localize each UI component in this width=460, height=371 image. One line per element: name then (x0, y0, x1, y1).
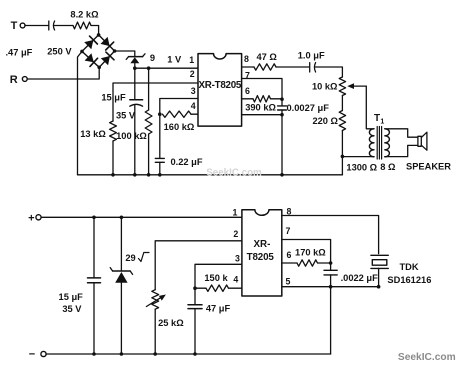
wire 1.0uF to pot 10k (315, 67, 342, 77)
svg-text:1: 1 (233, 207, 238, 217)
IC U2 XR-T8205 (242, 210, 282, 296)
svg-text:1300 Ω: 1300 Ω (346, 163, 377, 173)
svg-text:100 kΩ: 100 kΩ (116, 131, 147, 141)
resistor 390k (245, 96, 282, 113)
svg-text:47 μF: 47 μF (206, 304, 231, 314)
terminal minus (29, 349, 46, 361)
capacitor 15uF 35V upper (101, 92, 142, 175)
wire 47ohm to 1.0uF (276, 66, 309, 68)
svg-text:2: 2 (233, 229, 238, 239)
svg-text:6: 6 (245, 86, 250, 96)
resistor R1 8.2k (70, 10, 99, 29)
crystal TDK SD161216 (371, 255, 431, 286)
svg-text:10 kΩ: 10 kΩ (312, 82, 338, 92)
svg-text:35 V: 35 V (116, 111, 136, 121)
capacitor .0022uF (324, 263, 378, 287)
svg-text:1.0 μF: 1.0 μF (298, 51, 325, 61)
svg-text:8.2 kΩ: 8.2 kΩ (70, 10, 99, 20)
svg-text:R: R (10, 74, 18, 86)
svg-text:13 kΩ: 13 kΩ (80, 129, 106, 139)
svg-text:1 V: 1 V (167, 54, 182, 64)
svg-text:0.0027 μF: 0.0027 μF (287, 103, 330, 113)
svg-text:170 kΩ: 170 kΩ (295, 248, 326, 258)
capacitor 47uF (188, 304, 230, 355)
svg-text:0.22 μF: 0.22 μF (170, 157, 202, 167)
svg-text:7: 7 (285, 226, 290, 236)
wire R1 to bridge top (91, 26, 99, 35)
svg-text:5: 5 (285, 276, 290, 286)
wire bridge left to ground rail (78, 51, 83, 174)
wire U1 pin8 to 47ohm (242, 66, 254, 68)
transformer T1 secondary (385, 129, 390, 157)
wire U2 pin7 (282, 240, 331, 264)
svg-text:150 k: 150 k (204, 273, 228, 283)
wire node to 0.22uF (159, 114, 161, 158)
svg-text:XR-: XR- (253, 239, 270, 250)
resistor 100k (116, 110, 152, 141)
resistor 150k (195, 273, 242, 291)
lower top rail (41, 216, 242, 218)
svg-text:.47 μF: .47 μF (5, 48, 32, 58)
svg-text:29: 29 (125, 253, 135, 263)
potentiometer 25k (146, 290, 184, 328)
wire U1 pin5 (242, 114, 282, 116)
top rail dots (92, 216, 123, 220)
wire 47uF top (194, 288, 196, 305)
node U1 pin5 junction (280, 113, 284, 117)
svg-text:6: 6 (287, 250, 292, 260)
svg-text:9: 9 (150, 53, 155, 63)
capacitor 1.0uF (298, 51, 325, 73)
capacitor 0.0027uF (278, 99, 330, 115)
svg-text:160 kΩ: 160 kΩ (164, 122, 195, 132)
pin5 junction dots (329, 285, 381, 289)
wire zener to U1 pin 1 (135, 67, 198, 69)
svg-text:T: T (374, 113, 380, 124)
resistor 160k (163, 111, 199, 132)
resistor 170k (295, 248, 331, 267)
resistor 220ohm (312, 111, 345, 131)
svg-text:220 Ω: 220 Ω (312, 116, 338, 126)
wire pot wiper down to T1 (366, 86, 374, 129)
zener diode 9 (1V) (126, 53, 155, 68)
wire U1 pin6 stub (242, 98, 253, 100)
svg-text:4: 4 (233, 275, 238, 285)
transformer T1 primary (342, 129, 374, 157)
svg-text:XR-T8205: XR-T8205 (198, 80, 241, 91)
svg-text:15 μF: 15 μF (101, 92, 126, 102)
terminal plus (28, 213, 41, 225)
wire U1 pin7 (242, 79, 282, 100)
svg-text:1: 1 (189, 55, 194, 65)
svg-text:.0022 μF: .0022 μF (341, 273, 379, 283)
wire U2 pin3 riser (195, 264, 242, 288)
diode bridge D1-D4 (80, 33, 116, 69)
resistor 47ohm (254, 52, 277, 70)
wire U2 pin5 (282, 286, 379, 288)
svg-text:SeekIC.com: SeekIC.com (206, 168, 262, 179)
node 160k junction (158, 112, 162, 116)
lower ground rail (46, 353, 331, 355)
svg-text:SPEAKER: SPEAKER (406, 161, 451, 171)
wire 100k to rail (148, 134, 150, 175)
wire 15uF lower top (93, 217, 95, 278)
wire R to bridge bottom (27, 67, 99, 79)
wire secondary to speaker top (385, 129, 418, 137)
wire U2 pin8 to crystal (282, 216, 379, 254)
wire 15uF branch upper (134, 68, 136, 100)
wire node to rail corner (341, 156, 343, 174)
svg-text:TDK: TDK (399, 262, 418, 272)
svg-text:2: 2 (190, 69, 195, 79)
wire C1 to R1 (54, 25, 73, 27)
capacitor C1 .47uF 250V (5, 21, 72, 58)
svg-text:15 μF: 15 μF (59, 292, 84, 302)
U1 pin labels left (189, 55, 196, 111)
svg-text:7: 7 (245, 71, 250, 81)
svg-text:250 V: 250 V (47, 47, 72, 57)
svg-text:390 kΩ: 390 kΩ (245, 103, 276, 113)
svg-text:1: 1 (380, 119, 384, 126)
potentiometer 10k (312, 77, 366, 96)
label 29 (125, 253, 149, 264)
wire pin5 node to rail (281, 115, 283, 175)
svg-text:35 V: 35 V (62, 304, 82, 314)
svg-text:T8205: T8205 (247, 252, 275, 263)
rail junction dots (111, 173, 284, 177)
wire pot to 220ohm (341, 96, 343, 111)
wire 13k to rail (112, 141, 114, 175)
IC U1 XR-T8205 (198, 54, 242, 127)
svg-text:4: 4 (191, 101, 196, 111)
zener diode 29 (110, 268, 132, 354)
svg-text:8 Ω: 8 Ω (380, 162, 396, 172)
terminal T (11, 20, 25, 32)
wire U2 pin6 stub (282, 262, 297, 264)
terminal R (10, 74, 27, 86)
wire 25k to rail (154, 309, 156, 354)
U2 pin labels left (233, 207, 240, 284)
node 1300 ohm (341, 155, 345, 159)
node 150k junction (193, 286, 197, 290)
wire secondary to speaker bottom (385, 145, 418, 156)
U2 pin labels right (285, 207, 291, 287)
resistor 13k (80, 121, 116, 141)
capacitor 0.22uF (155, 157, 203, 175)
wire U2 pin2 to 25k (155, 241, 242, 290)
svg-text:SD161216: SD161216 (387, 275, 431, 285)
svg-text:T: T (11, 20, 18, 32)
upper ground rail (78, 174, 343, 176)
transformer T1 core (377, 127, 381, 160)
wire U1 pin2 to 13k (113, 83, 198, 121)
svg-text:47 Ω: 47 Ω (257, 52, 278, 62)
wire U1 pin3 to 0.22uF node (160, 99, 198, 115)
node 170k junction (329, 261, 333, 265)
lower rail dots (92, 352, 197, 356)
svg-text:+: + (28, 213, 34, 225)
capacitor 15uF 35V lower (59, 278, 101, 354)
svg-text:3: 3 (191, 86, 196, 96)
svg-text:25 kΩ: 25 kΩ (158, 318, 184, 328)
wire bridge right to zener (115, 51, 135, 56)
label T1 (374, 113, 384, 126)
svg-text:8: 8 (244, 54, 249, 64)
U1 pin labels right (244, 54, 250, 96)
wire 220ohm to node 1300 (341, 131, 343, 157)
svg-text:−: − (29, 349, 35, 361)
node 390k junction (280, 97, 284, 101)
svg-text:SeekIC.com: SeekIC.com (398, 352, 456, 363)
wire zener lower top (120, 217, 122, 271)
svg-text:3: 3 (235, 254, 240, 264)
wire pin5 to lower rail (330, 287, 332, 354)
wire 100k branch (148, 68, 150, 110)
node pin1 net (133, 66, 150, 70)
speaker (346, 132, 451, 172)
wire T to C1 (25, 25, 48, 27)
